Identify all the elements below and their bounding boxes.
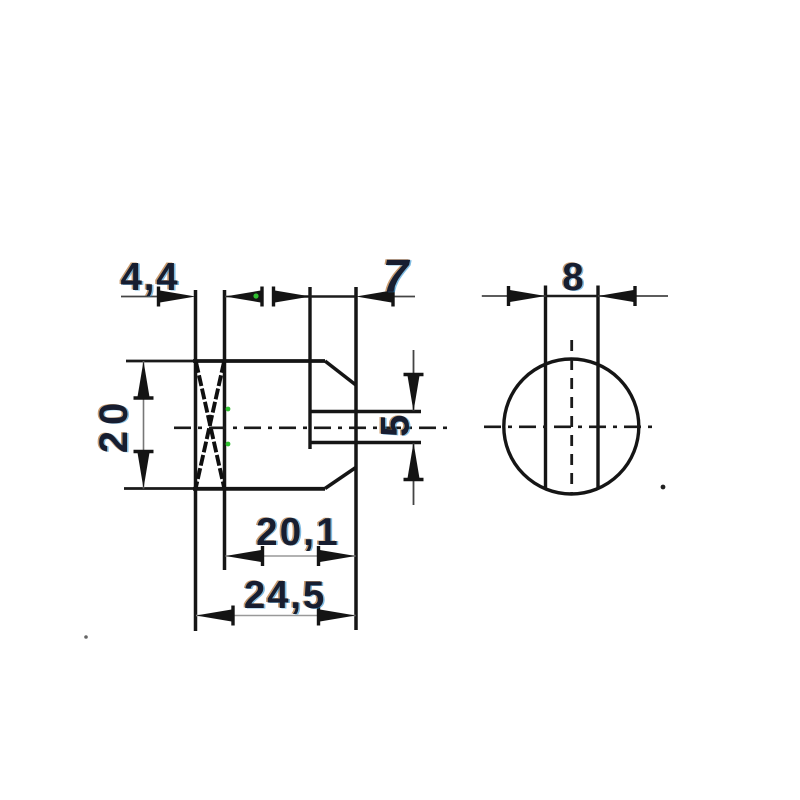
arrow 20 bottom [134, 452, 154, 489]
knurl boundary vertical [223, 290, 227, 570]
left face vertical [194, 290, 198, 631]
green speck on dim line [253, 293, 258, 298]
arrow 4,4 left [159, 287, 196, 307]
dim line [196, 615, 356, 617]
label 4,4 [119, 256, 181, 300]
arrow 7 left [274, 287, 311, 307]
centre line left view [174, 426, 447, 429]
dim line tails [121, 296, 160, 298]
dim line [226, 555, 356, 557]
flat silhouette line right [596, 286, 599, 490]
green speck upper [226, 407, 231, 412]
boss bottom line [310, 441, 421, 444]
dim line [482, 295, 668, 297]
boss top line [310, 410, 421, 413]
knurl cross diagonal 1 [196, 362, 224, 487]
label 5 rotated [372, 414, 419, 437]
arrow 8 right [598, 286, 635, 306]
bottom chamfer [325, 467, 357, 489]
flat silhouette line left [544, 286, 547, 490]
arrow 4,4 right [225, 287, 262, 307]
svg-text:8: 8 [562, 256, 583, 299]
svg-text:24,5: 24,5 [244, 574, 326, 617]
green speck lower [226, 442, 231, 447]
svg-text:4,4: 4,4 [121, 256, 180, 299]
arrow 24,5 right [319, 606, 356, 626]
vertical centre line [570, 340, 573, 494]
dim line [143, 361, 145, 489]
horizontal centre line [484, 425, 659, 428]
label 7 [381, 249, 412, 302]
svg-text:7: 7 [383, 250, 411, 302]
black speck right view [661, 485, 666, 490]
label 20 rotated [91, 396, 138, 453]
top face with left extension [126, 360, 195, 363]
gray speck bottom left [84, 635, 88, 639]
knurl cross diagonal 2 [196, 362, 224, 487]
boss root vertical [308, 287, 311, 449]
arrow 20,1 left [226, 546, 263, 566]
right face / extension vertical [354, 287, 358, 630]
arrow 5 bottom [404, 443, 424, 480]
arrow 8 left [509, 286, 546, 306]
dim line [273, 295, 356, 298]
svg-text:5: 5 [374, 415, 418, 437]
arrow 7 right [356, 287, 393, 307]
svg-text:20,1: 20,1 [256, 511, 340, 554]
label 24,5 [242, 574, 327, 618]
arrow 20 top [134, 361, 154, 398]
label 20,1 [255, 510, 342, 554]
label 8 [561, 256, 585, 300]
dim line tails [413, 350, 415, 411]
arrow 20,1 right [319, 546, 356, 566]
top chamfer [325, 361, 357, 386]
svg-text:20: 20 [92, 397, 136, 454]
circle outline [504, 359, 639, 494]
bottom face with left extension [124, 487, 195, 490]
arrow 5 top [404, 375, 424, 412]
arrow 24,5 left [196, 606, 233, 626]
